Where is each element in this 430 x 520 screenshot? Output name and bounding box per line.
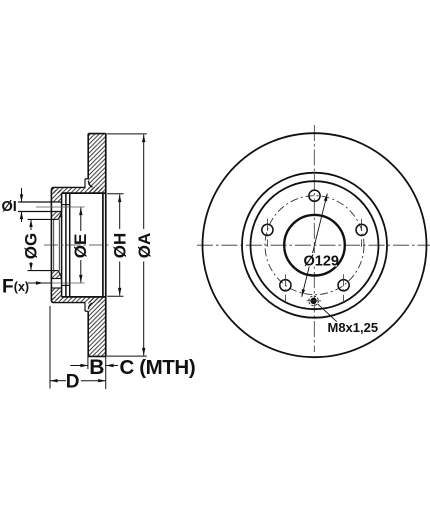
bore cone thin lines: [53, 219, 55, 270]
bolt holes: [309, 190, 320, 201]
dim B: [87, 356, 89, 369]
circle r72.5: [242, 173, 387, 318]
outer circle OA: [203, 133, 427, 357]
disc ring outline: [88, 133, 106, 135]
hole axis lines: [36, 206, 85, 208]
svg-text:D: D: [66, 372, 80, 393]
M8 hole marker: [310, 298, 316, 304]
O129 leader diameter line: [302, 194, 328, 297]
flange face: [51, 187, 54, 302]
hat plate surfaces: [54, 186, 85, 188]
svg-text:B: B: [89, 356, 104, 379]
interior shoulder lines: [62, 204, 70, 206]
chamfer bottom edges / OG extension lines: [28, 218, 59, 220]
svg-text:F: F: [2, 277, 14, 298]
dim OG: [30, 219, 32, 230]
svg-text:ØE: ØE: [71, 234, 90, 259]
dim OI: [21, 188, 23, 202]
center bore: [284, 215, 345, 276]
dim D: [49, 306, 51, 389]
svg-text:Ø129: Ø129: [304, 254, 339, 270]
svg-text:ØH: ØH: [110, 233, 129, 259]
circle r64: [251, 181, 379, 309]
bolt hole edges top: [18, 201, 62, 203]
left view: brake disc cross-section: [18, 134, 111, 357]
front view of disc: [197, 125, 430, 357]
svg-text:ØG: ØG: [21, 233, 40, 259]
bolt circle dash-dot: [265, 196, 364, 295]
undercut groove top: [85, 178, 88, 180]
dim OA: [107, 133, 147, 135]
svg-text:ØA: ØA: [135, 233, 154, 259]
svg-text:C (MTH): C (MTH): [120, 356, 196, 379]
bolt hole edges bottom: [51, 287, 61, 289]
centerline vertical: [313, 125, 315, 352]
dim OE: [80, 208, 82, 232]
chamfer corner-cut diagonals: [58, 212, 61, 219]
undercut groove bottom: [85, 310, 88, 312]
flange back face + hat walls: [61, 193, 63, 297]
dim OH: [107, 193, 123, 195]
centerline horizontal: [197, 244, 430, 246]
centerline left view: [44, 244, 111, 246]
svg-text:(x): (x): [14, 280, 29, 294]
svg-text:M8x1,25: M8x1,25: [328, 320, 379, 335]
M8 leader + label: [318, 304, 337, 322]
svg-text:ØI: ØI: [2, 199, 17, 215]
